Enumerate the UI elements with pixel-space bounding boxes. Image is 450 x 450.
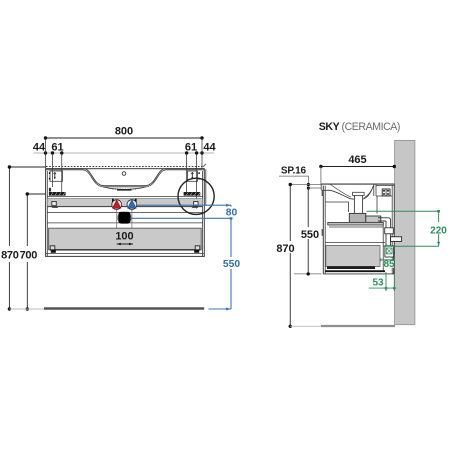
870 700 labels [0, 246, 39, 262]
svg-text:SKY (CERAMICA): SKY (CERAMICA) [319, 121, 400, 133]
faucet hole [122, 172, 126, 176]
detail callout circle [178, 178, 214, 214]
svg-text:53: 53 [372, 278, 384, 289]
front edge clips [322, 191, 324, 196]
svg-text:550: 550 [223, 259, 240, 270]
svg-text:SP.16: SP.16 [281, 165, 307, 176]
drain flange [353, 192, 365, 195]
extension lines from top dims [46, 138, 203, 209]
svg-text:220: 220 [430, 226, 447, 237]
right mount bracket box [187, 171, 197, 181]
cabinet side back edge [391, 186, 393, 274]
cabinet top gray band [47, 199, 202, 207]
top band left clip [52, 202, 58, 208]
right wall rail hatched [184, 192, 201, 196]
basin bottom line [47, 196, 202, 198]
valve extension lines [117, 209, 132, 244]
left wall rail hatched [49, 192, 66, 196]
basin bowl dip [103, 187, 146, 190]
svg-text:700: 700 [20, 250, 38, 262]
basin dashed back rim [46, 166, 203, 168]
svg-text:465: 465 [348, 154, 366, 166]
left bracket screw [53, 172, 56, 179]
siphon trap body [349, 213, 366, 222]
right bracket screw [191, 172, 194, 179]
basin back corner hook right [203, 164, 206, 206]
cabinet inner side lines [46, 171, 48, 256]
dim 465 [321, 166, 394, 168]
220 label [428, 222, 449, 234]
basin front rim outer [46, 169, 205, 186]
drawer front gray panel [49, 228, 202, 250]
basin top side [321, 183, 394, 185]
dim 44/61 line [34, 151, 215, 154]
wall bracket box side [382, 189, 390, 196]
drawer slide dark [327, 266, 375, 269]
dim 550 side [308, 187, 321, 189]
valve stems [112, 199, 114, 202]
80 label [223, 207, 240, 218]
basin front rim inner [46, 170, 205, 187]
svg-text:85: 85 [383, 259, 395, 270]
basin drain hatch [117, 189, 132, 191]
svg-text:61: 61 [51, 142, 63, 154]
dim 870 side [290, 184, 321, 186]
550 label [221, 257, 242, 269]
left mount bracket box [50, 171, 63, 181]
under-basin shelf line [325, 202, 348, 212]
drain stem [353, 196, 355, 216]
dim 53 [369, 272, 395, 291]
hot valve (red) [112, 200, 122, 210]
svg-text:80: 80 [226, 208, 238, 219]
trap plate [328, 222, 384, 225]
svg-text:550: 550 [301, 229, 319, 241]
svg-text:870: 870 [1, 250, 19, 262]
drawer body side [326, 245, 380, 266]
drawer right clamp [194, 246, 200, 253]
drawer left clamp [50, 246, 56, 253]
green dim lines [367, 211, 439, 246]
cabinet side front edge [322, 186, 324, 274]
wall bolt tab [391, 237, 402, 242]
drain box [117, 212, 132, 224]
550 870 labels side [299, 227, 320, 239]
left dark block above rail [49, 188, 51, 192]
top band right clip [192, 202, 198, 208]
cabinet bottom side [325, 270, 385, 272]
blue dim lines [131, 205, 232, 309]
svg-text:800: 800 [115, 126, 133, 138]
basin side profile [321, 184, 392, 199]
svg-text:870: 870 [276, 243, 294, 255]
pipe bracket channel [385, 246, 394, 257]
svg-text:44: 44 [203, 142, 216, 154]
cabinet bottom lines [46, 253, 205, 255]
waste pipe elbow [378, 218, 395, 253]
drawer top line side [325, 241, 385, 243]
svg-text:100: 100 [115, 231, 133, 243]
shelf lines [47, 212, 202, 214]
dim 870 vertical [9, 167, 46, 309]
dim 700 vertical [27, 194, 45, 309]
dim 800 line [44, 136, 204, 139]
dim 85 [381, 259, 395, 261]
cabinet outer box [46, 169, 205, 257]
pipe collar [385, 228, 394, 234]
svg-text:61: 61 [185, 142, 197, 154]
floor line side [290, 325, 321, 327]
wall [395, 140, 415, 324]
bracket green detail [386, 248, 392, 254]
dim 100 [113, 229, 136, 241]
floor line front [9, 308, 44, 310]
cold valve (blue) [127, 200, 137, 210]
svg-text:44: 44 [33, 142, 46, 154]
basin inner line [330, 184, 373, 198]
